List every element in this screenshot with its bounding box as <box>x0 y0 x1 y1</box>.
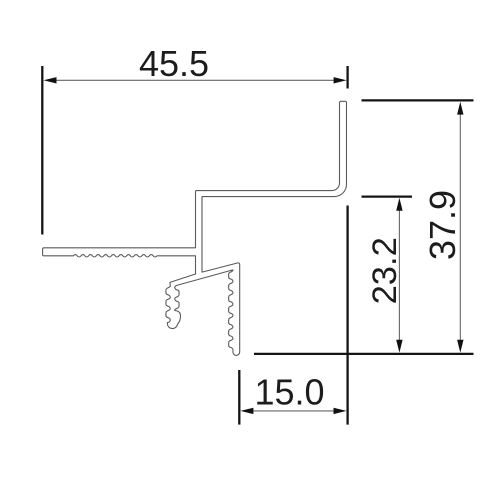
arrowhead left of 15.0 dimension <box>240 408 253 414</box>
svg-text:23.2: 23.2 <box>366 237 404 304</box>
profile outline: aluminium tile trim cross-section <box>43 101 347 355</box>
svg-text:45.5: 45.5 <box>139 43 209 84</box>
arrowhead right of 45.5 dimension <box>334 77 347 83</box>
arrowhead top of 37.9 dimension <box>457 102 463 115</box>
extension line, left end of 15.0 dimension <box>238 370 240 425</box>
extension line, top end of 23.2 dimension <box>362 195 413 197</box>
svg-text:15.0: 15.0 <box>254 372 324 413</box>
arrowhead right of 15.0 dimension <box>334 408 347 414</box>
dimension line 23.2 <box>398 204 400 346</box>
svg-text:37.9: 37.9 <box>422 190 463 260</box>
extension tick, right end of 45.5 dimension <box>346 66 348 89</box>
extension line, top end of 37.9 dimension <box>362 99 474 101</box>
extension line, left end of 45.5 dimension <box>41 66 43 235</box>
dimension line 37.9 <box>459 108 461 346</box>
arrowhead left of 45.5 dimension <box>44 77 57 83</box>
dimension line 45.5 <box>50 79 340 81</box>
arrowhead bottom of 23.2 dimension <box>396 340 402 353</box>
dimension line 15.0 <box>246 410 340 412</box>
shared bottom extension line for 37.9 and 23.2 dimensions <box>254 353 474 355</box>
long vertical extension line, right end of 15.0 dimension <box>346 206 348 425</box>
arrowhead bottom of 37.9 dimension <box>457 340 463 353</box>
arrowhead top of 23.2 dimension <box>396 198 402 211</box>
